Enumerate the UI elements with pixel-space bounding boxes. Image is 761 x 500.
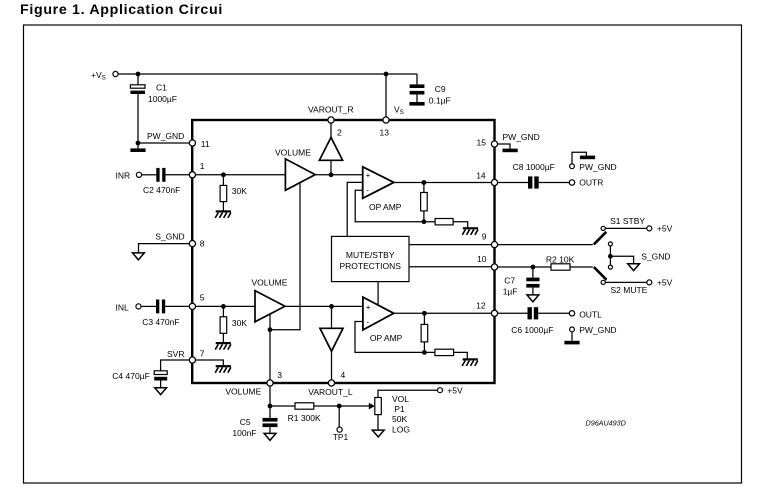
svg-text:-: - — [367, 318, 370, 327]
junction 30K lower — [221, 304, 226, 309]
svg-text:VOLUME: VOLUME — [275, 147, 311, 157]
resistor feedback L vertical — [423, 313, 425, 324]
wire to S_GND ground — [610, 256, 633, 263]
junction S_GND branch — [608, 254, 613, 259]
svg-text:P1: P1 — [394, 404, 405, 414]
ground S_GND switches (triangle) — [628, 264, 640, 271]
wire pin 3 down — [269, 386, 271, 406]
switch S1 contact — [601, 226, 605, 230]
ground C5 (triangle) — [264, 433, 276, 440]
svg-text:3: 3 — [277, 370, 282, 380]
svg-text:1000µF: 1000µF — [148, 94, 177, 104]
wire pin 8 to ground — [139, 244, 190, 253]
wire to TP1 terminal — [338, 406, 340, 427]
wire junction to varout L buffer — [331, 306, 333, 328]
wire C3 to pin 5 — [165, 305, 190, 307]
ground op-amp L (hatched) — [462, 359, 478, 366]
svg-text:11: 11 — [201, 139, 210, 149]
wire varout L buffer to pin 4 — [331, 351, 333, 380]
ground C9 (bar) — [409, 102, 424, 106]
svg-text:+: + — [366, 171, 371, 180]
node OUTL terminal — [569, 311, 574, 316]
svg-text:+VS: +VS — [91, 70, 106, 82]
svg-text:+5V: +5V — [657, 277, 673, 287]
capacitor C4 — [154, 371, 167, 375]
op-amp U1A — [363, 167, 394, 199]
svg-text:OUTR: OUTR — [579, 178, 603, 188]
junction C1 top — [136, 72, 141, 77]
svg-text:2: 2 — [337, 127, 342, 137]
svg-text:7: 7 — [200, 349, 205, 359]
wire mute block to pin 9 — [409, 244, 491, 246]
ground op-amp R (hatched) — [462, 228, 478, 235]
switch S1 alternate contact — [608, 242, 612, 246]
pin 12 — [491, 310, 497, 316]
junction PW_GND node — [136, 141, 141, 146]
svg-text:PW_GND: PW_GND — [579, 162, 616, 172]
wire pin 14 to C8 — [498, 182, 528, 184]
svg-text:D96AU493D: D96AU493D — [586, 418, 626, 427]
svg-text:S_GND: S_GND — [641, 251, 670, 261]
pin 9 — [491, 242, 497, 248]
wire feedback op-amp R — [355, 190, 424, 222]
svg-text:C4 470µF: C4 470µF — [112, 371, 150, 381]
ground C7 (triangle) — [527, 295, 539, 302]
svg-text:S2 MUTE: S2 MUTE — [611, 285, 648, 295]
node PW_GND terminal near OUTR — [570, 164, 575, 169]
varout L buffer (down triangle) — [320, 328, 343, 351]
wire C6 to OUTL — [538, 312, 569, 314]
wire P1 bottom to ground — [377, 415, 379, 430]
ground PW_GND (bar) — [137, 143, 139, 148]
junction varout L — [329, 304, 334, 309]
wire C8 to OUTR — [539, 182, 570, 184]
node +5V terminal S2 — [647, 280, 652, 285]
switch S2 arm — [594, 267, 607, 280]
svg-text:14: 14 — [476, 171, 486, 181]
svg-text:C8 1000µF: C8 1000µF — [513, 162, 555, 172]
switch S1 arm — [594, 232, 607, 245]
svg-text:0.1µF: 0.1µF — [429, 95, 451, 105]
switch S2 contact — [601, 280, 605, 284]
pin 13 — [383, 117, 389, 123]
junction volume control — [268, 327, 273, 332]
svg-text:5: 5 — [200, 292, 205, 302]
capacitor C7 — [532, 267, 534, 278]
wire INR to C2 — [142, 174, 157, 176]
svg-text:4: 4 — [341, 370, 346, 380]
pin 15 — [491, 141, 497, 147]
pin 1 — [189, 172, 195, 178]
svg-text:R2 10K: R2 10K — [546, 254, 575, 264]
junction feedback bottom L — [422, 350, 427, 355]
wire volume R out — [315, 174, 363, 176]
wire pin 1 to volume R — [196, 174, 286, 176]
pin 8 — [189, 241, 195, 247]
capacitor C9 — [416, 74, 418, 84]
svg-text:OP AMP: OP AMP — [369, 202, 402, 212]
junction C9 branch — [384, 72, 389, 77]
ground pin 7 (hatched) — [215, 366, 231, 373]
svg-text:R1 300K: R1 300K — [288, 413, 321, 423]
svg-text:OP AMP: OP AMP — [370, 333, 403, 343]
wire pin 10 to R2 — [498, 266, 551, 268]
wire op-amp R output to pin 14 — [394, 182, 492, 184]
svg-text:+5V: +5V — [657, 223, 673, 233]
capacitor C6 — [528, 307, 532, 319]
wire pin 7 to C4 — [161, 360, 190, 371]
svg-text:INR: INR — [116, 171, 131, 181]
IC block U1 — [192, 120, 494, 383]
svg-text:TP1: TP1 — [333, 432, 349, 442]
wire alternate contacts — [609, 246, 611, 265]
wire S1 to +5V — [605, 227, 647, 229]
svg-text:PROTECTIONS: PROTECTIONS — [339, 261, 401, 271]
svg-text:C3 470nF: C3 470nF — [142, 317, 179, 327]
ground C4 (triangle) — [155, 388, 167, 395]
svg-text:OUTL: OUTL — [579, 309, 602, 319]
wire INL to C3 — [141, 305, 156, 307]
varout R buffer (up triangle) — [319, 137, 342, 160]
resistor to ground L horizontal — [435, 349, 454, 355]
node PW_GND terminal near OUTL — [570, 327, 575, 332]
wire C2 to pin 1 — [166, 174, 190, 176]
wire S2 to +5V — [605, 281, 647, 283]
svg-text:PW_GND: PW_GND — [147, 131, 184, 141]
pin 5 — [189, 303, 195, 309]
switch S2 alternate contact — [608, 265, 612, 269]
wire junction to varout R buffer — [330, 160, 332, 175]
resistor 30K upper — [222, 175, 224, 186]
svg-text:13: 13 — [380, 127, 390, 137]
svg-text:50K: 50K — [392, 414, 407, 424]
svg-text:C2 470nF: C2 470nF — [143, 185, 180, 195]
pin 4 — [328, 380, 334, 386]
svg-text:SVR: SVR — [167, 349, 184, 359]
wire volume L out — [285, 305, 363, 307]
wire pin 9 to S1 — [498, 244, 593, 246]
svg-text:VOL: VOL — [392, 394, 409, 404]
wire feedback op-amp L — [355, 322, 424, 353]
resistor 30K lower — [222, 306, 224, 316]
wire op-amp L output to pin 12 — [394, 312, 492, 314]
svg-text:8: 8 — [200, 238, 205, 248]
svg-text:12: 12 — [476, 301, 486, 311]
junction varout R — [329, 172, 334, 177]
svg-text:VAROUT_L: VAROUT_L — [308, 387, 353, 397]
svg-text:VS: VS — [394, 104, 404, 116]
svg-text:15: 15 — [477, 137, 487, 147]
svg-text:+: + — [366, 303, 371, 312]
svg-text:VOLUME: VOLUME — [225, 386, 261, 396]
ground 30K upper (hatched) — [215, 211, 231, 218]
capacitor C1 — [137, 74, 139, 85]
svg-text:9: 9 — [482, 232, 487, 242]
svg-text:C5: C5 — [240, 417, 251, 427]
svg-text:MUTE/STBY: MUTE/STBY — [346, 250, 395, 260]
wire mute control to op-amp R — [347, 182, 363, 236]
junction feedback top L — [422, 311, 427, 316]
ground PW_GND OUTL (bar) — [571, 332, 573, 341]
svg-text:+5V: +5V — [447, 386, 463, 396]
svg-text:100nF: 100nF — [232, 428, 256, 438]
wire R1 to TP1 junction — [314, 405, 339, 407]
capacitor C8 — [528, 176, 532, 188]
wire P1 top to +5V — [378, 390, 438, 397]
capacitor C2 — [156, 168, 159, 182]
svg-text:LOG: LOG — [392, 424, 410, 434]
pin 11 — [189, 140, 195, 146]
node OUTR terminal — [569, 180, 574, 185]
svg-text:INL: INL — [116, 302, 130, 312]
capacitor C5 — [269, 406, 271, 418]
wire junction to P1 wiper — [339, 405, 369, 407]
svg-text:-: - — [366, 186, 369, 195]
mute-stby block — [332, 236, 410, 281]
wire volume L control — [269, 314, 271, 380]
P1 wiper arrow — [369, 403, 375, 410]
pin 2 — [328, 117, 334, 123]
ground pin 15 (bar) — [498, 144, 510, 149]
junction feedback bottom R — [422, 219, 427, 224]
svg-text:S1 STBY: S1 STBY — [610, 216, 645, 226]
resistor feedback R vertical — [423, 183, 425, 193]
wire varout R buffer to pin 2 — [330, 123, 332, 137]
ground S_GND (triangle) — [133, 253, 145, 260]
junction feedback top R — [422, 180, 427, 185]
svg-text:1µF: 1µF — [503, 287, 518, 297]
pin 14 — [491, 179, 497, 185]
wire mute block to pin 10 — [409, 266, 491, 268]
svg-text:Figure 1. Application Circui: Figure 1. Application Circui — [20, 2, 223, 18]
svg-text:VAROUT_R: VAROUT_R — [308, 105, 354, 115]
potentiometer P1 body — [375, 398, 382, 415]
svg-text:30K: 30K — [232, 318, 247, 328]
wire to pin 11 — [138, 142, 190, 144]
junction TP1 — [337, 404, 342, 409]
resistor R1 300K — [270, 405, 295, 407]
svg-text:30K: 30K — [232, 186, 247, 196]
wire R2 to S2 — [570, 266, 593, 268]
wire mute control to op-amp L — [377, 282, 379, 305]
wire pin 5 to volume L — [196, 305, 256, 307]
svg-text:1: 1 — [200, 161, 205, 171]
ground PW_GND OUTR (bar) — [572, 152, 586, 164]
junction 30K upper — [221, 172, 226, 177]
op-amp U1B — [363, 297, 394, 330]
capacitor C3 — [156, 300, 159, 314]
svg-text:C1: C1 — [156, 83, 167, 93]
wire pin 7 to internal ground — [196, 360, 224, 366]
svg-text:VOLUME: VOLUME — [252, 278, 288, 288]
ground P1 (triangle) — [372, 430, 384, 437]
resistor to ground R horizontal — [435, 219, 453, 225]
wire volume R control — [270, 183, 300, 330]
pin 10 — [491, 264, 497, 270]
svg-text:PW_GND: PW_GND — [579, 325, 616, 335]
node +5V terminal S1 — [647, 226, 652, 231]
wire pin 12 to C6 — [498, 312, 528, 314]
junction C7 — [531, 265, 536, 270]
node TP1 terminal — [337, 427, 342, 432]
svg-text:C6 1000µF: C6 1000µF — [511, 325, 553, 335]
pin 3 — [267, 380, 273, 386]
wire +Vs rail — [118, 73, 417, 75]
svg-text:C7: C7 — [504, 276, 515, 286]
svg-text:10: 10 — [477, 254, 487, 264]
pin 7 — [189, 357, 195, 363]
svg-text:C9: C9 — [435, 84, 446, 94]
svg-text:S_GND: S_GND — [155, 231, 184, 241]
junction C5 R1 — [268, 404, 273, 409]
ground 30K lower (hatched) — [215, 343, 231, 350]
node +5V terminal P1 — [438, 388, 443, 393]
svg-text:PW_GND: PW_GND — [503, 132, 540, 142]
wire +Vs to pin 13 — [385, 74, 387, 117]
